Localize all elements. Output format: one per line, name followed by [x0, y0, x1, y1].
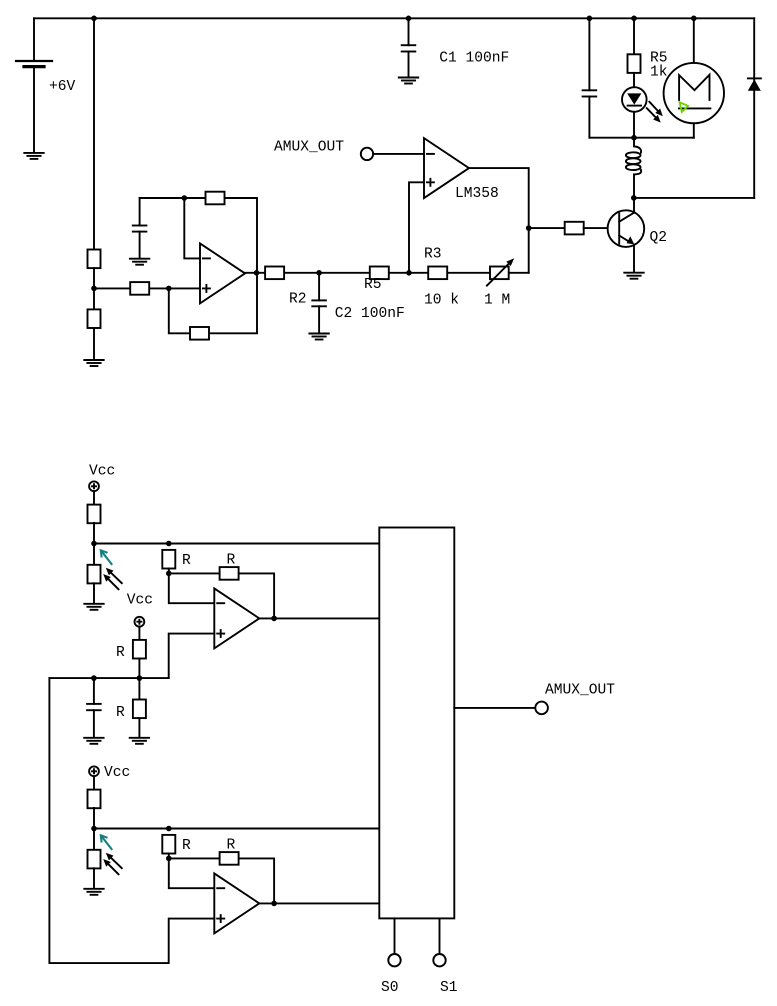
wire + input A1 to mid rail — [169, 634, 215, 679]
resistor Q2 base R — [565, 222, 584, 235]
wire photocell to ground sensor2 — [93, 868, 95, 888]
svg-text:10 k: 10 k — [424, 293, 459, 309]
resistor series R A1 — [162, 550, 175, 569]
wire - input to feedback top — [184, 198, 200, 258]
wire S0 stub — [394, 918, 396, 954]
wire mid lower R lead — [138, 678, 140, 699]
wire cap to feedback — [139, 198, 141, 226]
resistor feedback R A2 — [220, 852, 239, 865]
wire output A2 — [259, 902, 379, 904]
terminal S0 — [388, 954, 400, 966]
wire Q2 emitter to ground — [633, 245, 635, 273]
svg-text:AMUX_OUT: AMUX_OUT — [274, 140, 344, 156]
node + input feedback junction — [166, 286, 172, 292]
wire Vcc to pullup sensor2 — [93, 776, 95, 790]
wire motor top lead — [693, 18, 695, 63]
wire node to photocell sensor1 — [93, 544, 95, 565]
transistor Q2 — [608, 210, 645, 247]
wire mid cap to ground — [93, 710, 95, 737]
node snubber cap top — [587, 15, 593, 21]
LED light arrow 2 — [647, 108, 661, 122]
node sensor sensor2 — [91, 826, 97, 832]
wire top feedback — [140, 198, 257, 273]
wire pullup to node sensor1 — [93, 523, 95, 544]
wire snubber cap bottom lead — [588, 97, 590, 138]
wire LED to mid rail — [633, 112, 635, 138]
photoresistor sensor1 — [88, 565, 101, 584]
node LED bottom junction — [631, 135, 637, 141]
node divider midpoint — [91, 286, 97, 292]
svg-text:C1 100nF: C1 100nF — [439, 51, 509, 67]
resistor series R A2 — [162, 835, 175, 854]
photo arrow teal sensor2 — [101, 835, 112, 850]
node mid cap junction — [91, 675, 97, 681]
diode D1 flyback — [748, 78, 761, 90]
wire mid cap lead — [93, 678, 95, 704]
wire feedback A2 — [169, 858, 274, 903]
op-amp U2 LM358 — [424, 138, 469, 198]
photoresistor sensor2 — [88, 850, 101, 869]
wire R to node A2 — [168, 854, 170, 859]
ground below C2 — [309, 334, 328, 340]
wire bottom feedback — [169, 273, 257, 334]
motor green direction mark — [680, 102, 688, 112]
resistor bottom feedback R — [190, 327, 209, 340]
motor M1 — [664, 63, 724, 123]
resistor pullup sensor2 — [88, 790, 101, 809]
svg-text:Q2: Q2 — [650, 230, 668, 246]
wire - input A2 — [169, 858, 215, 888]
node mid divider junction — [137, 675, 143, 681]
terminal S1 — [433, 954, 445, 966]
ground below U1 input cap — [130, 259, 149, 265]
photo arrow teal sensor1 — [101, 550, 112, 565]
svg-text:R: R — [116, 705, 125, 721]
node sensor sensor1 — [91, 541, 97, 547]
op-amp A1 — [214, 588, 259, 648]
svg-text:1k: 1k — [650, 65, 668, 81]
wire between divider resistors — [93, 268, 95, 309]
ground below Q2 — [624, 273, 643, 279]
ground below battery — [24, 153, 43, 159]
ground below mid lower R — [130, 738, 149, 744]
capacitor C2 — [312, 300, 326, 306]
resistor mid lower R — [133, 700, 146, 719]
power Vcc mid — [135, 617, 145, 627]
resistor R3 — [428, 267, 447, 280]
svg-text:S0: S0 — [381, 980, 399, 996]
LED D2 — [622, 87, 647, 112]
wire battery top lead — [33, 18, 35, 61]
wire mid lower R to ground — [138, 718, 140, 737]
resistor input R at + input — [130, 282, 149, 295]
wire R5 to LED — [633, 73, 635, 87]
node inverting A2 — [166, 856, 172, 862]
wire base resistor to Q2 — [584, 227, 620, 229]
svg-text:R3: R3 — [424, 247, 442, 263]
node rail R A1 — [166, 541, 172, 547]
svg-text:C2 100nF: C2 100nF — [335, 306, 405, 322]
op-amp A2 — [214, 873, 259, 933]
svg-text:Vcc: Vcc — [104, 765, 130, 781]
svg-text:1 M: 1 M — [484, 293, 510, 309]
wire inductor to collector node — [633, 174, 635, 198]
wire cap to ground — [139, 232, 141, 259]
wire Vcc to pullup sensor1 — [93, 491, 95, 505]
node C1 top — [406, 15, 412, 21]
wire snubber cap top lead — [588, 18, 590, 90]
node motor top — [691, 15, 697, 21]
wire C2 to ground — [318, 306, 320, 333]
wire input rail A2 — [94, 828, 379, 830]
resistor R5 on rail — [370, 267, 389, 280]
resistor R5 1k — [628, 54, 641, 73]
potentiometer wiper arrow — [487, 258, 514, 285]
node base drive junction — [526, 225, 532, 231]
wire + input A2 long loop — [49, 678, 214, 963]
wire motor bottom lead — [693, 123, 695, 137]
svg-text:Vcc: Vcc — [127, 593, 153, 609]
svg-text:R: R — [227, 553, 236, 569]
wire C1 top lead — [408, 18, 410, 45]
wire U2 output down to rail — [469, 168, 529, 273]
potentiometer 1M — [490, 267, 509, 280]
capacitor at U1 - input — [133, 226, 147, 232]
op-amp U1 — [200, 243, 245, 303]
power Vcc sensor1 — [89, 481, 99, 491]
LED light arrow 1 — [649, 102, 662, 116]
wire feedback A1 — [169, 573, 274, 618]
capacitor snubber — [583, 90, 597, 96]
wire divider column from rail — [93, 18, 95, 249]
wire node to photocell sensor2 — [93, 829, 95, 850]
svg-text:+6V: +6V — [49, 79, 76, 95]
photo arrow 1 sensor2 — [106, 853, 122, 868]
wire divider to ground — [93, 328, 95, 360]
wire R to node A1 — [168, 569, 170, 574]
photo arrow 2 sensor1 — [103, 574, 118, 589]
resistor divider lower R1b — [88, 309, 101, 328]
analog mux U3 — [379, 528, 454, 919]
wire output A1 — [259, 617, 379, 619]
wire pullup to node sensor2 — [93, 808, 95, 829]
inductor L1 (motor winding) — [626, 138, 641, 175]
svg-text:S1: S1 — [440, 980, 458, 996]
terminal AMUX_OUT input — [361, 148, 373, 160]
svg-text:R2: R2 — [289, 292, 307, 308]
node battery / divider junction — [91, 15, 97, 21]
wire mid rail cap-LED-motor — [589, 137, 693, 139]
resistor top feedback R — [206, 192, 225, 205]
node output A1 — [271, 616, 277, 622]
wire Vcc mid to R — [138, 627, 140, 640]
resistor mid upper R — [133, 640, 146, 659]
ground below divider — [84, 360, 103, 366]
wire S1 stub — [439, 918, 441, 954]
node R3 / + feedback junction — [406, 270, 412, 276]
svg-text:LM358: LM358 — [455, 186, 499, 202]
resistor pullup sensor1 — [88, 505, 101, 524]
svg-text:R: R — [116, 645, 125, 661]
svg-text:Vcc: Vcc — [89, 464, 115, 480]
photo arrow 1 sensor1 — [106, 568, 122, 583]
power Vcc sensor2 — [89, 766, 99, 776]
ground below mid cap — [84, 738, 103, 744]
photo arrow 2 sensor2 — [103, 859, 118, 874]
svg-text:R: R — [182, 553, 191, 569]
svg-text:R5: R5 — [364, 277, 382, 293]
wire C1 bottom lead — [408, 52, 410, 78]
ground below C1 — [399, 78, 418, 84]
node U1 output junction — [254, 270, 260, 276]
wire U1 output — [245, 272, 529, 274]
node collector junction — [631, 195, 637, 201]
capacitor C1 — [402, 45, 416, 51]
node output A2 — [271, 901, 277, 907]
node C2 junction — [316, 270, 322, 276]
wire Q2 collector — [633, 198, 635, 213]
node top feedback junction — [182, 195, 188, 201]
wire mid R to rail — [138, 659, 140, 679]
ground below photocell sensor2 — [84, 889, 103, 895]
wire diode branch down — [753, 18, 755, 198]
node rail R A2 — [166, 826, 172, 832]
resistor feedback R A1 — [220, 567, 239, 580]
resistor divider upper R1 — [88, 250, 101, 269]
wire divider mid to op-amp input — [94, 287, 200, 289]
wire mux output — [454, 707, 535, 709]
wire photocell to ground sensor1 — [93, 583, 95, 603]
svg-text:R: R — [182, 838, 191, 854]
wire AMUX_OUT to - input — [373, 153, 424, 155]
wire R5 top lead — [633, 18, 635, 54]
wire to Q2 base resistor — [529, 227, 566, 229]
terminal AMUX_OUT output — [535, 702, 548, 715]
wire battery bottom lead — [33, 67, 35, 153]
resistor R2 — [265, 267, 284, 280]
wire C2 from rail — [318, 273, 320, 301]
battery +6V plates — [16, 61, 52, 67]
wire input rail A1 — [94, 543, 379, 545]
wire + feedback vertical — [409, 182, 424, 272]
node inverting A1 — [166, 571, 172, 577]
ground below photocell sensor1 — [84, 604, 103, 610]
svg-text:R: R — [227, 838, 236, 854]
capacitor mid reference — [87, 704, 101, 710]
node R5 top — [631, 15, 637, 21]
wire mid reference rail — [49, 677, 168, 679]
wire - input A1 — [169, 573, 215, 603]
wire top power rail — [34, 17, 754, 19]
wire collector to diode branch — [634, 197, 754, 199]
svg-text:AMUX_OUT: AMUX_OUT — [545, 682, 615, 698]
